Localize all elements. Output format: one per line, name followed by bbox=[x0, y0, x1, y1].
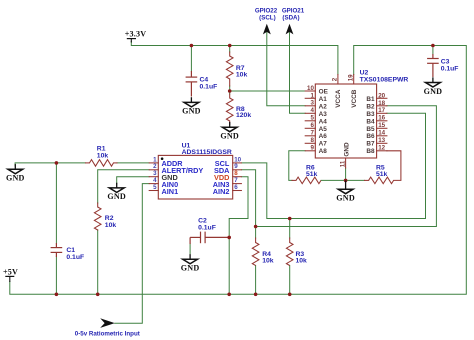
svg-text:14: 14 bbox=[378, 130, 385, 137]
svg-text:B8: B8 bbox=[366, 148, 375, 155]
svg-text:A8: A8 bbox=[319, 148, 328, 155]
svg-text:B3: B3 bbox=[366, 111, 375, 118]
svg-text:10k: 10k bbox=[262, 258, 274, 265]
svg-text:16: 16 bbox=[378, 115, 385, 122]
svg-text:AIN2: AIN2 bbox=[213, 187, 230, 196]
svg-text:B6: B6 bbox=[366, 133, 375, 140]
svg-text:0.1uF: 0.1uF bbox=[441, 65, 459, 72]
svg-text:13: 13 bbox=[378, 137, 385, 144]
svg-text:51k: 51k bbox=[306, 171, 318, 178]
svg-text:6: 6 bbox=[310, 122, 314, 129]
svg-text:0-5v Ratiometric Input: 0-5v Ratiometric Input bbox=[75, 331, 140, 338]
svg-text:GND: GND bbox=[182, 107, 201, 116]
svg-text:ADS1115IDGSR: ADS1115IDGSR bbox=[182, 149, 232, 156]
svg-text:(SDA): (SDA) bbox=[282, 14, 299, 21]
svg-text:19: 19 bbox=[347, 74, 354, 81]
svg-text:10: 10 bbox=[307, 85, 314, 92]
svg-text:8: 8 bbox=[310, 137, 314, 144]
svg-text:B7: B7 bbox=[366, 141, 375, 148]
svg-text:GND: GND bbox=[181, 264, 200, 273]
svg-text:GND: GND bbox=[424, 87, 443, 96]
svg-text:+3.3V: +3.3V bbox=[125, 30, 147, 39]
svg-text:0.1uF: 0.1uF bbox=[198, 225, 216, 232]
svg-text:A2: A2 bbox=[319, 103, 328, 110]
svg-text:20: 20 bbox=[378, 92, 385, 99]
svg-text:TXS0108EPWR: TXS0108EPWR bbox=[360, 76, 409, 83]
svg-text:A7: A7 bbox=[319, 141, 328, 148]
svg-text:(SCL): (SCL) bbox=[259, 14, 276, 21]
svg-text:15: 15 bbox=[378, 122, 385, 129]
svg-text:5: 5 bbox=[310, 115, 314, 122]
svg-text:10k: 10k bbox=[296, 258, 308, 265]
svg-text:A1: A1 bbox=[319, 96, 328, 103]
svg-text:VCCB: VCCB bbox=[351, 89, 358, 107]
svg-text:C3: C3 bbox=[441, 58, 450, 65]
svg-text:B1: B1 bbox=[366, 96, 375, 103]
svg-text:9: 9 bbox=[310, 144, 314, 151]
svg-text:GND: GND bbox=[6, 174, 25, 183]
svg-text:+5V: +5V bbox=[3, 268, 18, 277]
svg-text:10k: 10k bbox=[105, 222, 117, 229]
svg-text:GND: GND bbox=[220, 132, 239, 141]
svg-text:5: 5 bbox=[153, 184, 157, 191]
svg-text:120k: 120k bbox=[236, 112, 251, 119]
svg-text:C2: C2 bbox=[198, 217, 207, 224]
svg-text:2: 2 bbox=[332, 77, 339, 81]
svg-text:R1: R1 bbox=[97, 146, 106, 153]
svg-text:OE: OE bbox=[319, 89, 329, 96]
svg-text:51k: 51k bbox=[376, 171, 388, 178]
svg-text:10k: 10k bbox=[97, 153, 109, 160]
svg-text:10k: 10k bbox=[236, 71, 248, 78]
svg-text:VCCA: VCCA bbox=[335, 89, 342, 107]
svg-text:11: 11 bbox=[339, 160, 346, 167]
svg-text:A5: A5 bbox=[319, 126, 328, 133]
svg-text:18: 18 bbox=[378, 100, 385, 107]
svg-text:A6: A6 bbox=[319, 133, 328, 140]
svg-text:GND: GND bbox=[107, 192, 126, 201]
svg-text:1: 1 bbox=[310, 92, 314, 99]
svg-text:0.1uF: 0.1uF bbox=[200, 83, 218, 90]
svg-text:17: 17 bbox=[378, 107, 385, 114]
svg-text:GPIO22: GPIO22 bbox=[255, 7, 278, 14]
svg-text:B5: B5 bbox=[366, 126, 375, 133]
svg-text:A4: A4 bbox=[319, 118, 328, 125]
svg-text:AIN1: AIN1 bbox=[162, 187, 179, 196]
svg-text:4: 4 bbox=[310, 107, 314, 114]
svg-text:3: 3 bbox=[310, 100, 314, 107]
svg-text:B2: B2 bbox=[366, 103, 375, 110]
svg-text:A3: A3 bbox=[319, 111, 328, 118]
svg-text:GND: GND bbox=[343, 142, 350, 157]
svg-text:GND: GND bbox=[336, 194, 355, 203]
svg-text:7: 7 bbox=[310, 130, 314, 137]
svg-text:B4: B4 bbox=[366, 118, 375, 125]
svg-text:6: 6 bbox=[234, 184, 238, 191]
svg-text:0.1uF: 0.1uF bbox=[66, 254, 84, 261]
svg-text:12: 12 bbox=[378, 144, 385, 151]
svg-text:GPIO21: GPIO21 bbox=[282, 7, 305, 14]
